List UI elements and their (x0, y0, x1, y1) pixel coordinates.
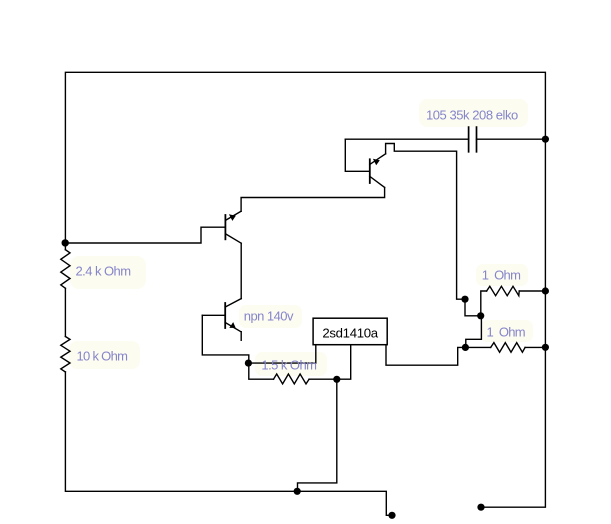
label background npn (239, 305, 302, 328)
label background 1ohm bottom (480, 320, 533, 342)
svg-text:2.4 k Ohm: 2.4 k Ohm (76, 264, 131, 279)
wire left border lower + bottom rail (65, 372, 390, 515)
svg-text:1.5 k Ohm: 1.5 k Ohm (261, 357, 316, 372)
label background 10k (69, 341, 140, 369)
transistor Q2 emitter lead (225, 211, 241, 220)
junction dot D12 (462, 344, 469, 351)
resistor R2 10 k Ohm (61, 337, 70, 373)
wire node D3 to bottom rail (298, 379, 337, 491)
wire R3 to U1 pin 2 (309, 345, 351, 380)
transistor Q3 emitter lead (225, 323, 241, 332)
wire R4 to right rail (519, 290, 545, 292)
junction dot D9 (542, 344, 549, 351)
wire Q3 base loop to node D2 (202, 315, 273, 379)
transistor Q3 collector lead (225, 299, 241, 307)
transistor Q3 base wire (202, 314, 225, 316)
label background 1ohm top (476, 264, 528, 286)
transistor Q1 base bar (369, 159, 371, 183)
wire capacitor to right rail (477, 138, 546, 140)
svg-text:2sd1410a: 2sd1410a (322, 326, 378, 341)
junction dot D8 (542, 287, 549, 294)
transistor Q3 base bar (224, 303, 226, 328)
transistor Q1 emitter arrow (373, 159, 380, 165)
junction dot D1 (61, 239, 68, 246)
transistor Q2 base bar (224, 215, 226, 239)
transistor Q2 emitter arrow (229, 214, 236, 221)
wire R5 to right rail (525, 346, 545, 348)
wire node A to Q2 base (65, 227, 224, 243)
wire left border middle segment (64, 288, 66, 336)
terminal dot D5 (388, 512, 395, 519)
wire node D2 to U1 pin 1 (248, 345, 315, 363)
capacitor C1 plate 1 (468, 127, 470, 152)
transistor Q2 collector lead (225, 234, 241, 244)
wire Q1 emitter to node D10 D11 (386, 144, 481, 316)
label background 2.4k (70, 256, 146, 289)
wire node D12 to resistor R5 (465, 346, 490, 348)
terminal dot D6 (477, 504, 484, 511)
transistor Q1 base wire (345, 139, 370, 171)
wire Q3 emitter stub (240, 332, 242, 341)
transistor Q1 collector lead (370, 176, 385, 187)
junction dot D10 (461, 296, 468, 303)
junction dot D4 (294, 488, 301, 495)
resistor R5 1 Ohm bottom (491, 343, 525, 353)
wire Q2 collector to Q3 collector (240, 243, 242, 298)
junction dot D2 (245, 360, 252, 367)
wire top rail to capacitor (345, 138, 468, 140)
resistor R3 1.5 k Ohm (274, 374, 310, 384)
label background 1.5k (255, 352, 327, 376)
wire top border (65, 72, 545, 507)
wire node D11 down to node D12 (466, 316, 482, 348)
transistor Q1 emitter lead (370, 154, 386, 165)
wire node D11 up to resistor R4 (481, 291, 487, 316)
resistor R1 2.4 k Ohm (61, 250, 70, 289)
svg-text:1 Ohm: 1 Ohm (487, 324, 525, 339)
transistor Q3 emitter arrow (229, 322, 235, 328)
resistor R4 1 Ohm top (487, 286, 520, 295)
capacitor C1 plate 2 (476, 127, 478, 152)
svg-text:10 k Ohm: 10 k Ohm (77, 348, 128, 363)
junction dot D3 (333, 376, 340, 383)
wire node D12 to U1 pin 3 (386, 345, 465, 366)
svg-text:npn 140v: npn 140v (244, 309, 294, 324)
junction dot D11 (477, 312, 484, 319)
svg-text:105 35k 208 elko: 105 35k 208 elko (426, 108, 518, 123)
label background elko (419, 99, 528, 127)
wire Q2 emitter to Q1 collector (241, 187, 385, 211)
IC U1 2sd1410a box (313, 318, 387, 345)
svg-text:1 Ohm: 1 Ohm (482, 267, 520, 282)
junction dot D7 (542, 136, 549, 143)
